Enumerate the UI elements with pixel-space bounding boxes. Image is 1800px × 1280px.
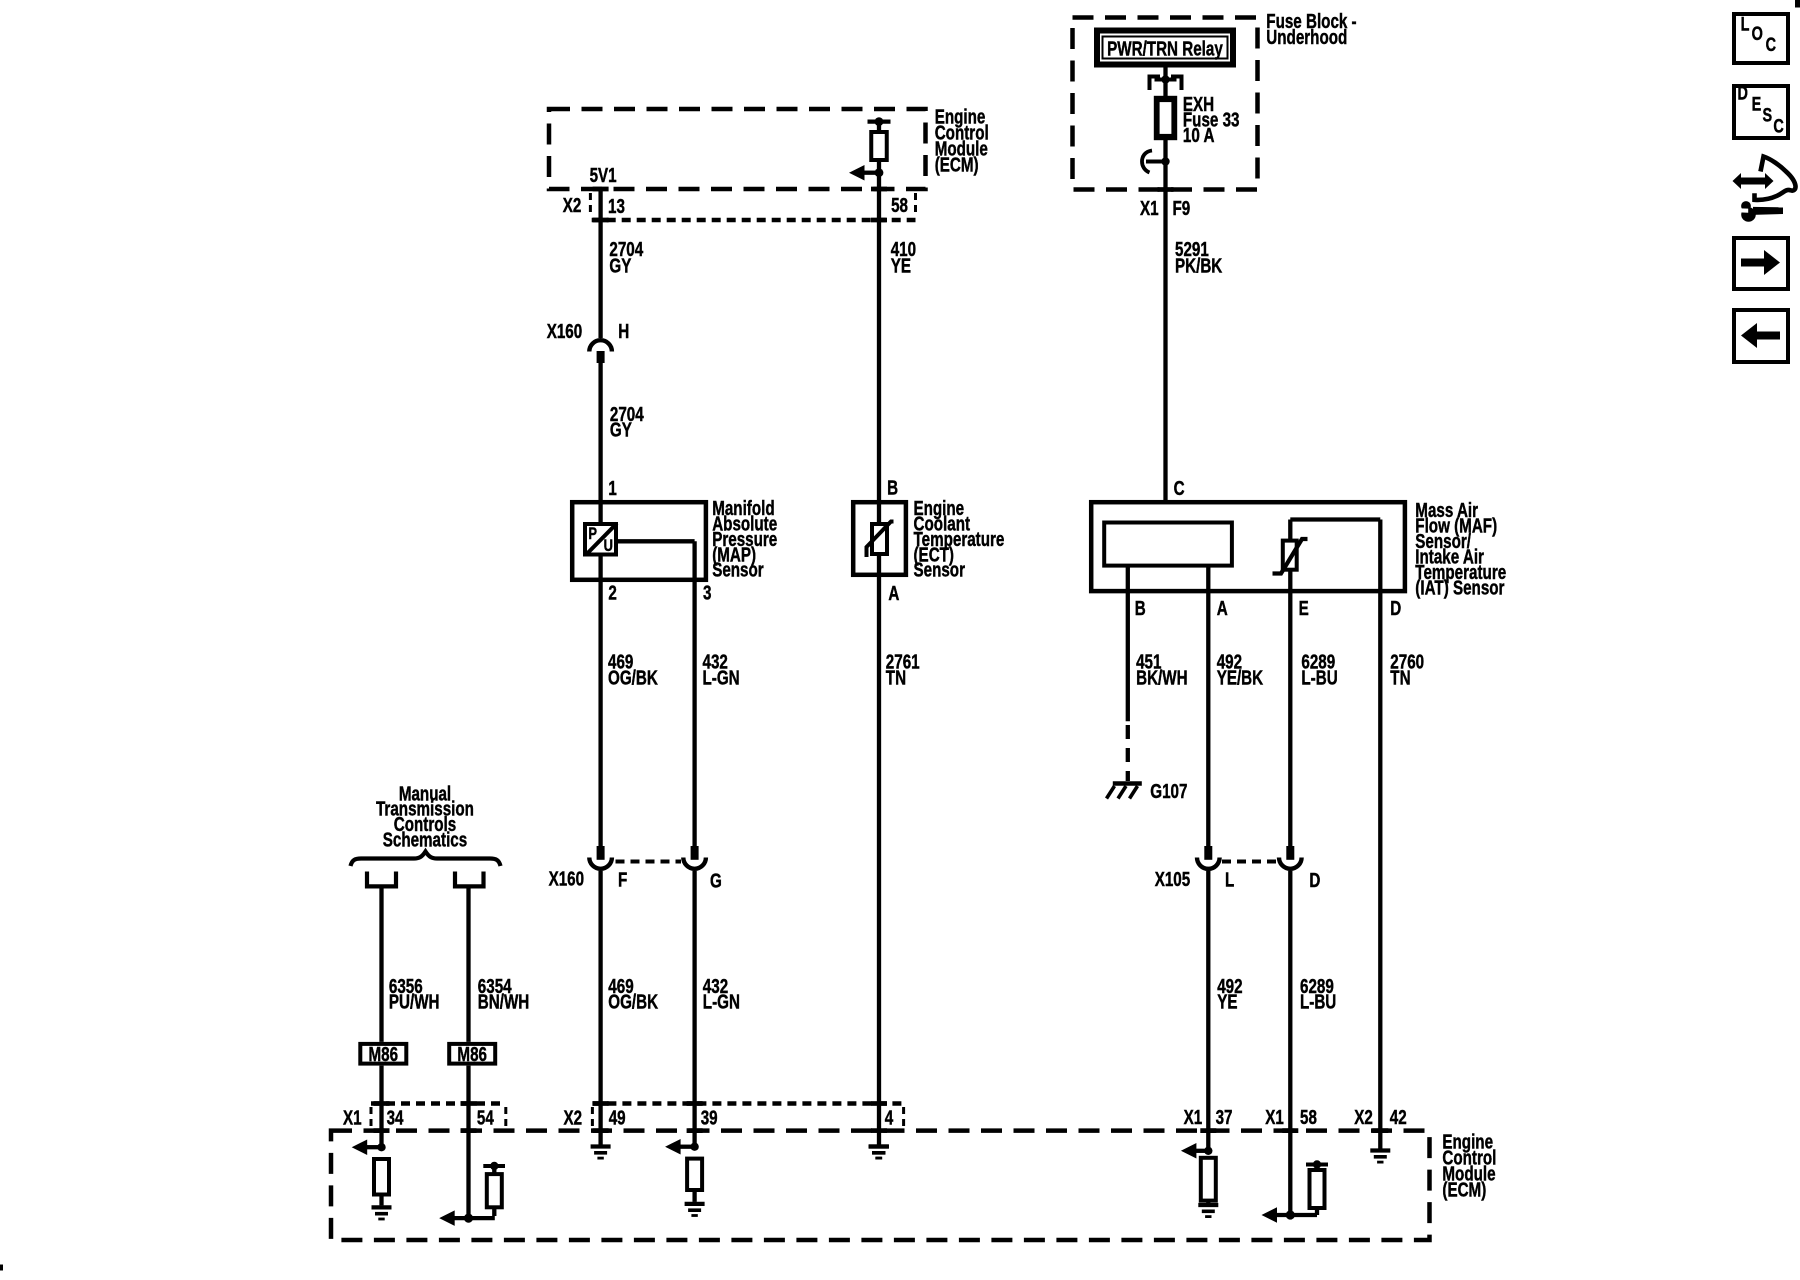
svg-text:1: 1 bbox=[608, 477, 617, 500]
svg-text:X2: X2 bbox=[1354, 1106, 1373, 1129]
svg-text:U: U bbox=[604, 537, 613, 556]
svg-text:X1: X1 bbox=[1184, 1106, 1203, 1129]
svg-text:(IAT) Sensor: (IAT) Sensor bbox=[1415, 577, 1504, 600]
svg-text:E: E bbox=[1752, 93, 1762, 114]
svg-text:OG/BK: OG/BK bbox=[608, 991, 658, 1014]
svg-text:X105: X105 bbox=[1155, 868, 1191, 891]
svg-text:3: 3 bbox=[703, 582, 712, 605]
svg-text:TN: TN bbox=[1390, 667, 1410, 690]
svg-text:C: C bbox=[1174, 477, 1185, 500]
svg-text:5V1: 5V1 bbox=[590, 164, 617, 187]
svg-text:G: G bbox=[710, 869, 722, 892]
svg-text:C: C bbox=[1773, 115, 1783, 136]
svg-text:L-GN: L-GN bbox=[703, 991, 740, 1014]
svg-text:D: D bbox=[1309, 869, 1320, 892]
svg-text:D: D bbox=[1390, 597, 1401, 620]
svg-text:D: D bbox=[1738, 82, 1748, 103]
svg-text:58: 58 bbox=[1300, 1106, 1317, 1129]
svg-text:P: P bbox=[588, 525, 597, 544]
svg-text:GY: GY bbox=[609, 254, 631, 277]
svg-text:(ECM): (ECM) bbox=[935, 153, 979, 176]
svg-text:O: O bbox=[1752, 23, 1763, 44]
svg-text:L-GN: L-GN bbox=[703, 667, 740, 690]
svg-text:G107: G107 bbox=[1150, 780, 1187, 803]
svg-text:BN/WH: BN/WH bbox=[478, 991, 529, 1014]
svg-text:X1: X1 bbox=[343, 1107, 362, 1130]
svg-text:13: 13 bbox=[608, 195, 625, 218]
svg-text:Sensor: Sensor bbox=[712, 559, 764, 582]
svg-text:BK/WH: BK/WH bbox=[1136, 667, 1187, 690]
svg-text:L-BU: L-BU bbox=[1301, 667, 1337, 690]
svg-text:YE: YE bbox=[1217, 991, 1237, 1014]
svg-text:X160: X160 bbox=[547, 320, 583, 343]
svg-text:X2: X2 bbox=[563, 194, 582, 217]
svg-text:X1: X1 bbox=[1140, 197, 1159, 220]
svg-text:54: 54 bbox=[477, 1107, 494, 1130]
svg-text:X1: X1 bbox=[1265, 1106, 1284, 1129]
svg-text:OG/BK: OG/BK bbox=[608, 667, 658, 690]
svg-text:X160: X160 bbox=[549, 867, 585, 890]
svg-text:YE: YE bbox=[891, 254, 911, 277]
svg-text:(ECM): (ECM) bbox=[1442, 1178, 1486, 1201]
svg-text:Sensor: Sensor bbox=[914, 559, 966, 582]
svg-text:49: 49 bbox=[609, 1107, 626, 1130]
svg-text:L-BU: L-BU bbox=[1300, 991, 1336, 1014]
svg-text:TN: TN bbox=[886, 667, 906, 690]
svg-text:10 A: 10 A bbox=[1183, 124, 1215, 147]
svg-text:B: B bbox=[1135, 597, 1146, 620]
svg-text:Schematics: Schematics bbox=[383, 828, 468, 851]
svg-text:58: 58 bbox=[891, 194, 908, 217]
svg-text:2: 2 bbox=[608, 582, 617, 605]
svg-text:X2: X2 bbox=[564, 1107, 583, 1130]
svg-text:PU/WH: PU/WH bbox=[389, 991, 440, 1014]
svg-text:H: H bbox=[618, 320, 629, 343]
svg-text:M86: M86 bbox=[369, 1043, 399, 1066]
svg-text:PWR/TRN Relay: PWR/TRN Relay bbox=[1107, 37, 1223, 60]
svg-text:34: 34 bbox=[387, 1107, 404, 1130]
svg-text:F: F bbox=[618, 868, 627, 891]
svg-text:42: 42 bbox=[1390, 1106, 1407, 1129]
svg-text:B: B bbox=[887, 477, 898, 500]
svg-text:L: L bbox=[1741, 14, 1750, 35]
svg-text:C: C bbox=[1766, 34, 1776, 55]
svg-text:E: E bbox=[1299, 597, 1309, 620]
svg-text:A: A bbox=[888, 582, 899, 605]
svg-text:YE/BK: YE/BK bbox=[1217, 667, 1264, 690]
svg-text:L: L bbox=[1225, 868, 1234, 891]
svg-text:GY: GY bbox=[610, 418, 632, 441]
svg-text:37: 37 bbox=[1216, 1106, 1233, 1129]
svg-text:Underhood: Underhood bbox=[1266, 26, 1347, 49]
svg-text:F9: F9 bbox=[1173, 197, 1191, 220]
svg-text:M86: M86 bbox=[457, 1043, 487, 1066]
svg-text:PK/BK: PK/BK bbox=[1175, 254, 1222, 277]
svg-text:S: S bbox=[1763, 104, 1773, 125]
svg-text:A: A bbox=[1217, 597, 1228, 620]
svg-text:39: 39 bbox=[701, 1107, 718, 1130]
svg-text:4: 4 bbox=[885, 1107, 894, 1130]
